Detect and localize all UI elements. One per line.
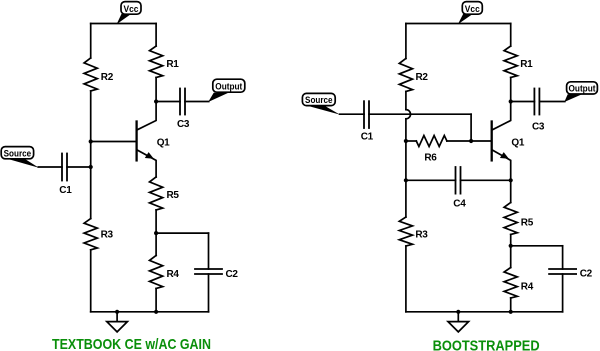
wire hop over C1 wire xyxy=(406,110,411,119)
transistor Q1 (right) bar xyxy=(491,122,493,161)
resistor R3 (right) xyxy=(399,217,412,246)
node junction dot (405.9,180.3) xyxy=(404,178,408,182)
wire: left bottom rail xyxy=(91,311,209,313)
net label Source pointer tail xyxy=(8,159,39,168)
ground (right) xyxy=(457,312,459,322)
wire: emitter of Q1 (right) xyxy=(492,150,510,180)
resistor R4 (left) xyxy=(150,256,163,289)
node junction dot (458.3,311.8) xyxy=(456,310,460,314)
svg-text:Q1: Q1 xyxy=(157,138,170,149)
wire: C2 branch down lower (left) xyxy=(208,274,210,312)
wire: R1 to output node xyxy=(155,78,157,102)
wire: node to R4 xyxy=(155,233,157,255)
resistor R6 (bootstrap) xyxy=(406,140,416,142)
resistor R2 (left) xyxy=(84,58,97,91)
svg-text:R2: R2 xyxy=(101,72,114,83)
svg-text:C2: C2 xyxy=(226,269,239,280)
resistor R3 (left) xyxy=(84,219,97,250)
node junction dot (510.7,101.5) xyxy=(509,99,513,103)
wire: right bottom rail xyxy=(406,311,563,313)
wire: Source to C1 (right) xyxy=(340,113,364,115)
wire: left divider vertical lower xyxy=(90,250,92,312)
svg-text:Source: Source xyxy=(4,148,32,158)
wire: R5 to node (right) xyxy=(510,235,512,246)
svg-text:R5: R5 xyxy=(167,190,180,201)
node junction dot (471.1,141) xyxy=(469,139,473,143)
net label Output pointer tail xyxy=(564,94,582,102)
capacitor C1 (right) plates xyxy=(363,101,365,128)
wire: right divider vertical upper xyxy=(405,24,407,59)
svg-text:BOOTSTRAPPED: BOOTSTRAPPED xyxy=(433,338,540,351)
wire: C2 branch down lower (right) xyxy=(562,274,564,312)
resistor R5 (left) xyxy=(150,177,163,210)
wire: divider to C4 (right) xyxy=(406,179,456,181)
svg-text:Vcc: Vcc xyxy=(465,4,480,14)
net label Vcc box xyxy=(121,2,141,15)
svg-text:C2: C2 xyxy=(580,269,593,280)
svg-text:R6: R6 xyxy=(424,152,437,163)
svg-text:R3: R3 xyxy=(415,229,428,240)
wire: node to collector of Q1 (right) xyxy=(492,102,510,130)
node junction dot (156.1,311.8) xyxy=(154,310,158,314)
wire: R5 to emitter node xyxy=(155,210,157,233)
wire: left divider vertical upper xyxy=(90,24,92,59)
wire: C2 branch down upper (right) xyxy=(562,246,564,269)
wire: left top rail xyxy=(91,23,156,25)
net label Source pointer tail xyxy=(308,106,340,115)
net label Source box xyxy=(302,93,335,105)
net label Source box xyxy=(1,147,33,159)
capacitor C1 (left) plates xyxy=(61,154,63,181)
capacitor C2 (right) plates xyxy=(549,268,576,270)
wire: left collector branch upper xyxy=(155,24,157,47)
net label Vcc pointer tail xyxy=(117,14,132,24)
node junction dot (90.7,141.5) xyxy=(89,139,93,143)
svg-text:Q1: Q1 xyxy=(511,138,524,149)
wire: divider to crossover hop xyxy=(405,92,407,110)
wire: R1 to output node (right) xyxy=(510,78,512,102)
resistor R1 (right) xyxy=(504,46,517,78)
resistor R1 (left) xyxy=(150,46,163,78)
net label Output box xyxy=(213,79,245,92)
wire: C4 to emitter node (right) xyxy=(461,179,511,181)
svg-text:Output: Output xyxy=(569,84,596,94)
wire: C1 across to corner (right) xyxy=(369,113,471,115)
net label Vcc pointer tail xyxy=(458,14,473,24)
node junction dot (117.1,311.8) xyxy=(115,310,119,314)
transistor Q1 (left) emitter arrow xyxy=(145,152,154,159)
wire: left divider vertical middle xyxy=(90,91,92,219)
capacitor C4 plates xyxy=(455,167,457,194)
svg-text:R2: R2 xyxy=(416,72,429,83)
node junction dot (90.7,167) xyxy=(89,165,93,169)
net label Vcc box xyxy=(462,2,482,15)
wire: C2 branch down upper (left) xyxy=(208,233,210,269)
node junction dot (510.7,180.3) xyxy=(509,178,513,182)
node junction dot (510.7,245.8) xyxy=(509,244,513,248)
node junction dot (156.1,233.1) xyxy=(154,231,158,235)
resistor R4 (right) xyxy=(504,268,517,299)
wire: C3 to Output xyxy=(185,101,209,103)
svg-text:C1: C1 xyxy=(361,132,374,143)
svg-text:Vcc: Vcc xyxy=(124,4,139,14)
wire: node to collector of Q1 xyxy=(137,102,156,130)
wire: divider hop to R3 xyxy=(405,119,407,217)
net label Output box xyxy=(567,82,598,94)
node junction dot (405.9,141) xyxy=(404,139,408,143)
svg-text:Source: Source xyxy=(305,95,333,105)
svg-text:R1: R1 xyxy=(166,59,179,70)
wire: right collector branch upper xyxy=(510,24,512,47)
wire: base node to Q1 base (right) xyxy=(471,140,491,142)
capacitor C3 (left) plates xyxy=(179,89,181,115)
wire: Source to C1 (left) xyxy=(38,166,62,168)
wire: node to C2 branch (right) xyxy=(511,245,563,247)
wire: base wire left Q1 xyxy=(91,141,136,143)
transistor Q1 (left) bar xyxy=(135,122,137,161)
wire: right divider vertical lower xyxy=(405,246,407,312)
wire: C3 to Output (right) xyxy=(539,101,564,103)
ground (left) xyxy=(116,312,118,322)
net label Output pointer tail xyxy=(208,93,228,102)
capacitor C2 (left) plates xyxy=(195,268,222,270)
resistor R5 (right) xyxy=(504,203,517,235)
svg-text:C4: C4 xyxy=(453,199,466,210)
wire: emitter of Q1 down to R5 xyxy=(137,150,156,177)
wire: emitter node to R5 (right) xyxy=(510,180,512,202)
capacitor C3 (right) plates xyxy=(533,89,535,115)
wire: node to C3 xyxy=(156,101,180,103)
svg-text:R3: R3 xyxy=(101,230,114,241)
wire: node to R4 (right) xyxy=(510,246,512,268)
wire: emitter node to C2 branch (left) xyxy=(156,232,208,234)
svg-text:R1: R1 xyxy=(520,59,533,70)
svg-text:C3: C3 xyxy=(177,119,190,130)
resistor R2 (right) xyxy=(399,59,412,92)
wire: C1 to divider (left) xyxy=(67,166,91,168)
wire: R4 to bottom rail xyxy=(155,289,157,312)
wire: right top rail xyxy=(406,23,511,25)
transistor Q1 (right) emitter arrow xyxy=(500,152,509,159)
svg-text:R4: R4 xyxy=(521,282,534,293)
wire: corner down to base node xyxy=(470,114,472,141)
svg-text:Output: Output xyxy=(215,81,242,91)
node junction dot (510.7,311.8) xyxy=(509,310,513,314)
svg-text:R4: R4 xyxy=(167,269,180,280)
wire: node to C3 (right) xyxy=(511,101,535,103)
node junction dot (156.1,101.5) xyxy=(154,99,158,103)
svg-text:C3: C3 xyxy=(532,122,545,133)
wire: R4 to bottom rail (right) xyxy=(510,298,512,312)
svg-text:C1: C1 xyxy=(59,185,72,196)
svg-text:R5: R5 xyxy=(521,217,534,228)
svg-text:TEXTBOOK CE w/AC GAIN: TEXTBOOK CE w/AC GAIN xyxy=(52,336,211,351)
